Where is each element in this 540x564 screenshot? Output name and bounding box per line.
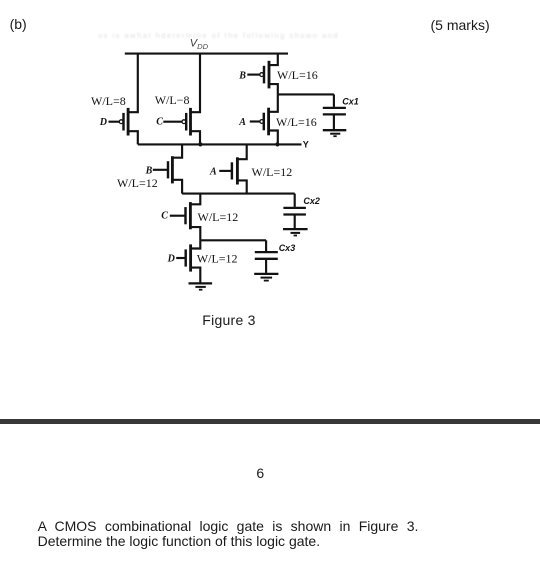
svg-text:Y: Y — [303, 140, 309, 150]
svg-text:Cx2: Cx2 — [303, 196, 320, 206]
page divider bar — [0, 419, 540, 425]
VDD rail — [125, 53, 288, 55]
svg-text:VDD: VDD — [190, 38, 209, 51]
capacitor Cx3 — [255, 240, 278, 273]
svg-text:A: A — [209, 167, 217, 178]
svg-text:W/L=12: W/L=12 — [117, 176, 158, 190]
transistor Q3 PMOS gate B — [247, 54, 277, 95]
ground below Cx3 — [254, 274, 278, 281]
svg-text:Cx3: Cx3 — [279, 243, 296, 253]
transistor Q1 PMOS gate D — [109, 54, 138, 145]
ground below Cx2 — [283, 229, 308, 235]
capacitor Cx2 — [283, 194, 306, 229]
transistor Q5 NMOS gate B — [153, 144, 182, 193]
svg-text:W/L−8: W/L−8 — [155, 93, 190, 107]
svg-text:W/L=16: W/L=16 — [276, 115, 317, 129]
page number 6 — [256, 465, 264, 481]
svg-text:A: A — [238, 117, 246, 128]
junction node on Y at A-PMOS source — [275, 142, 279, 146]
wire node between C and D NMOS — [200, 239, 266, 241]
transistor Q8 NMOS gate D — [176, 240, 200, 283]
ground below Cx1 — [323, 130, 347, 136]
wire output node Y — [138, 143, 302, 145]
svg-text:W/L=12: W/L=12 — [197, 251, 238, 265]
svg-text:Cx1: Cx1 — [342, 97, 359, 107]
svg-text:D: D — [99, 117, 107, 128]
label (5 marks) — [431, 17, 490, 33]
svg-text:W/L=12: W/L=12 — [252, 165, 293, 179]
svg-text:D: D — [167, 254, 175, 265]
capacitor Cx1 — [323, 94, 346, 129]
caption Figure 3 — [202, 312, 255, 328]
svg-text:C: C — [161, 211, 168, 222]
transistor Q2 PMOS gate C — [163, 54, 200, 145]
transistor Q7 NMOS gate C — [170, 194, 201, 241]
wire node below parallel NMOS pair — [182, 193, 295, 195]
question paragraph — [38, 519, 419, 549]
transistor Q6 NMOS gate A — [219, 144, 246, 193]
transistor Q4 PMOS gate A — [250, 94, 278, 144]
faint bleed-through text — [98, 31, 388, 40]
svg-text:W/L=12: W/L=12 — [198, 210, 239, 224]
svg-text:B: B — [145, 166, 153, 177]
svg-text:B: B — [238, 71, 246, 82]
junction node on Y at C-PMOS source — [198, 142, 202, 146]
wire node between B and A PMOS — [278, 93, 334, 95]
label (b) — [10, 16, 27, 32]
ground below D NMOS — [189, 283, 213, 289]
svg-text:C: C — [156, 117, 163, 128]
svg-text:W/L=8: W/L=8 — [91, 94, 126, 108]
svg-text:W/L=16: W/L=16 — [277, 68, 318, 82]
